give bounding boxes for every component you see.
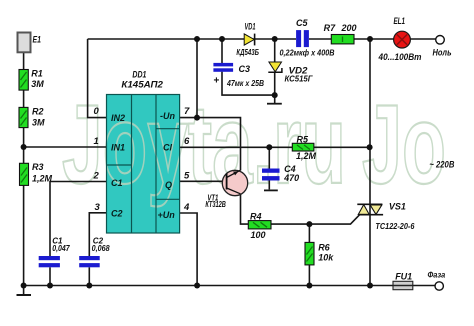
svg-text:470: 470 xyxy=(283,173,299,183)
svg-text:C3: C3 xyxy=(239,64,251,74)
svg-text:R3: R3 xyxy=(32,162,44,172)
svg-text:VD1: VD1 xyxy=(245,22,256,32)
svg-text:R2: R2 xyxy=(32,107,44,117)
svg-text:КД543Б: КД543Б xyxy=(236,48,259,57)
svg-text:0: 0 xyxy=(94,106,100,117)
svg-text:IN2: IN2 xyxy=(111,113,125,123)
svg-text:Ноль: Ноль xyxy=(433,48,452,58)
svg-text:10k: 10k xyxy=(318,253,334,263)
svg-text:EL1: EL1 xyxy=(394,16,406,26)
svg-text:IN1: IN1 xyxy=(111,143,125,153)
svg-text:КС515Г: КС515Г xyxy=(285,75,314,84)
svg-text:+: + xyxy=(214,76,220,87)
svg-text:R7: R7 xyxy=(324,23,336,33)
svg-text:7: 7 xyxy=(184,106,190,117)
svg-text:-Un: -Un xyxy=(160,111,175,121)
svg-text:R5: R5 xyxy=(297,135,309,145)
svg-text:4: 4 xyxy=(183,202,190,213)
svg-text:C1: C1 xyxy=(111,178,123,188)
svg-text:5: 5 xyxy=(184,171,190,182)
svg-text:1,2М: 1,2М xyxy=(32,174,53,184)
svg-text:Фаза: Фаза xyxy=(428,271,446,280)
svg-text:Q: Q xyxy=(165,180,172,190)
svg-text:Е1: Е1 xyxy=(33,35,42,45)
svg-text:Cl: Cl xyxy=(163,143,172,153)
svg-text:47мк x 25В: 47мк x 25В xyxy=(226,79,264,88)
svg-text:R1: R1 xyxy=(31,69,43,79)
svg-text:1,2М: 1,2М xyxy=(296,151,317,161)
svg-text:6: 6 xyxy=(184,136,190,147)
svg-text:VS1: VS1 xyxy=(389,202,406,212)
svg-text:Jo: Jo xyxy=(362,82,446,207)
svg-text:К145АП2: К145АП2 xyxy=(121,80,162,90)
svg-text:40...100Вт: 40...100Вт xyxy=(378,52,422,62)
svg-text:100: 100 xyxy=(251,230,266,240)
svg-text:1: 1 xyxy=(94,136,99,147)
svg-text:0,047: 0,047 xyxy=(52,244,70,253)
svg-text:ТС122-20-6: ТС122-20-6 xyxy=(375,222,415,231)
svg-text:DD1: DD1 xyxy=(132,70,146,80)
svg-text:+Un: +Un xyxy=(158,210,176,220)
svg-text:FU1: FU1 xyxy=(395,271,412,281)
svg-text:~ 220В: ~ 220В xyxy=(429,160,454,170)
svg-text:C2: C2 xyxy=(111,209,123,219)
svg-text:3М: 3М xyxy=(31,79,44,89)
svg-text:0,22мкф x 400В: 0,22мкф x 400В xyxy=(280,49,335,58)
svg-text:200: 200 xyxy=(341,23,357,33)
svg-text:КТ312В: КТ312В xyxy=(205,200,226,209)
svg-text:3: 3 xyxy=(95,202,101,213)
svg-text:0,068: 0,068 xyxy=(92,244,110,253)
svg-text:R4: R4 xyxy=(250,211,262,221)
svg-text:R6: R6 xyxy=(318,243,330,253)
svg-text:2: 2 xyxy=(93,171,100,182)
svg-text:3М: 3М xyxy=(32,118,45,128)
svg-text:C5: C5 xyxy=(296,18,308,28)
